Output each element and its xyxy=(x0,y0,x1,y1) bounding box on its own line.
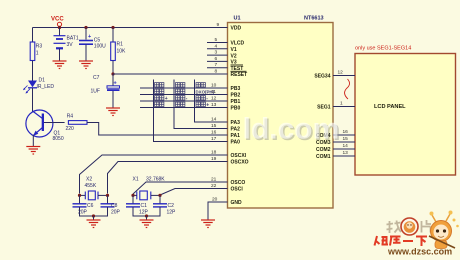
wire OSCXI pin 18 to X2 xyxy=(80,155,228,194)
wire COM3 to panel pin 15 xyxy=(333,141,355,143)
svg-text:C1: C1 xyxy=(141,203,148,209)
svg-text:19: 19 xyxy=(211,156,217,162)
pin stub VLCD 5 xyxy=(207,42,228,44)
wire rail to R3 xyxy=(32,28,34,43)
node dot X1 ground xyxy=(145,214,148,217)
node dot R1-C7-RESET xyxy=(111,72,114,75)
svg-text:12: 12 xyxy=(338,70,344,76)
wire VCC rail xyxy=(33,27,228,29)
node dot rail-C5 xyxy=(84,26,87,29)
wire D1 to Q1 collector xyxy=(32,88,34,112)
capacitor C8 20P xyxy=(101,203,121,216)
svg-text:OSCO: OSCO xyxy=(231,180,246,186)
svg-text:15: 15 xyxy=(211,123,217,129)
svg-text:RESET: RESET xyxy=(231,72,248,78)
svg-text:OSCXI: OSCXI xyxy=(231,153,247,159)
svg-text:U1: U1 xyxy=(234,16,241,22)
svg-text:C2: C2 xyxy=(168,203,175,209)
wire X2 right node to C8 xyxy=(107,195,109,203)
ground under GND pin xyxy=(201,220,215,228)
key label row3 col3 xyxy=(196,96,200,100)
svg-text:X2: X2 xyxy=(86,177,92,183)
svg-text:3V: 3V xyxy=(67,42,74,48)
key label row4 col1 xyxy=(155,102,159,106)
svg-text:8: 8 xyxy=(215,69,218,75)
pin stub TEST 7 xyxy=(207,67,228,69)
svg-text:32.768K: 32.768K xyxy=(146,177,165,183)
wire X2 caps to ground rail xyxy=(80,207,108,216)
svg-text:PB3: PB3 xyxy=(231,86,241,92)
wire COM4 to panel pin 16 xyxy=(333,134,355,136)
node dot X1 right xyxy=(158,194,161,197)
wire X1 caps to ground rail xyxy=(133,207,160,216)
ground under BAT1 xyxy=(53,61,67,69)
key label row1 col3 xyxy=(196,83,200,87)
wire node to RESET pin 8 xyxy=(113,73,228,75)
svg-text:1: 1 xyxy=(340,101,343,107)
svg-text:5: 5 xyxy=(215,37,218,43)
svg-text:GND: GND xyxy=(231,200,243,206)
svg-text:22: 22 xyxy=(211,183,217,189)
IC pin name TEST with overline xyxy=(231,65,244,72)
key matrix row wire PB3 pin 10 xyxy=(140,87,228,89)
wire Q1 emitter to ground xyxy=(32,135,34,147)
svg-text:3: 3 xyxy=(215,50,218,56)
svg-text:20P: 20P xyxy=(111,210,121,216)
svg-text:100U: 100U xyxy=(94,44,106,50)
wire OSCXO pin 19 to X2 xyxy=(108,162,228,194)
svg-text:C6: C6 xyxy=(87,203,94,209)
ground under C5 xyxy=(79,61,93,69)
battery BAT1 3V xyxy=(54,35,79,48)
svg-text:PA1: PA1 xyxy=(231,133,241,139)
wire COM2 to panel pin 14 xyxy=(333,148,355,150)
resistor R3 xyxy=(30,42,42,61)
svg-text:20: 20 xyxy=(212,197,218,203)
svg-text:D1: D1 xyxy=(39,78,46,84)
svg-text:PA3: PA3 xyxy=(231,120,241,126)
wire Q1 base to R4 xyxy=(44,122,65,124)
logo mascot xyxy=(429,211,459,249)
logo red text xyxy=(375,236,428,246)
svg-text:14: 14 xyxy=(343,143,349,149)
node dot X2 left xyxy=(78,194,81,197)
svg-text:1UF: 1UF xyxy=(91,89,100,95)
svg-text:220: 220 xyxy=(66,126,75,132)
wire R3 to D1 xyxy=(32,61,34,81)
capacitor C5 100U xyxy=(79,34,106,50)
svg-text:18: 18 xyxy=(211,150,217,156)
svg-text:IR_LED: IR_LED xyxy=(37,84,55,90)
wire GND pin 20 xyxy=(208,202,228,220)
svg-text:PB1: PB1 xyxy=(231,99,241,105)
svg-text:LCD PANEL: LCD PANEL xyxy=(374,104,406,110)
svg-text:1: 1 xyxy=(36,51,39,57)
svg-text:16: 16 xyxy=(343,129,349,135)
svg-text:PB2: PB2 xyxy=(231,93,241,99)
svg-text:12P: 12P xyxy=(167,210,177,216)
key matrix row wire PB2 pin 11 xyxy=(140,94,228,96)
wire rail to C5 xyxy=(85,28,87,40)
wire C5 to ground xyxy=(85,45,87,62)
svg-text:BAT1: BAT1 xyxy=(67,35,79,41)
wire OSCI pin 22 to X1 xyxy=(160,189,228,196)
wire rail to BAT1 xyxy=(59,28,61,36)
svg-text:DXO(PH): DXO(PH) xyxy=(196,90,215,95)
svg-text:455K: 455K xyxy=(85,183,97,189)
wire BAT1 to ground xyxy=(59,49,61,62)
key label row4 col3 xyxy=(196,102,200,106)
key matrix column 3 wire to PA3 pin 14 xyxy=(195,80,228,123)
svg-text:13: 13 xyxy=(343,150,349,156)
key label row1 col2 xyxy=(176,83,180,87)
wire X2 left node to C6 xyxy=(79,195,81,203)
IC pin name RESET with overline xyxy=(231,71,248,78)
svg-text:PA0: PA0 xyxy=(231,140,241,146)
svg-text:COM2: COM2 xyxy=(316,147,331,153)
svg-text:X1: X1 xyxy=(133,177,139,183)
svg-text:9: 9 xyxy=(217,22,220,28)
svg-text:14: 14 xyxy=(211,117,217,123)
svg-text:ld.com: ld.com xyxy=(243,113,340,146)
svg-text:R3: R3 xyxy=(36,44,43,50)
resistor R1 10K xyxy=(111,42,126,61)
VCC xyxy=(51,17,64,27)
capacitor C6 20P xyxy=(73,203,94,216)
svg-text:V1: V1 xyxy=(231,47,237,53)
svg-text:10: 10 xyxy=(211,83,217,89)
svg-text:R4: R4 xyxy=(67,114,74,120)
logo badge xyxy=(401,218,418,235)
svg-text:10K: 10K xyxy=(117,49,127,55)
key label row4 col2 xyxy=(176,102,180,106)
key matrix row wire PB0 pin 13 xyxy=(140,107,228,109)
wire C7 to ground xyxy=(112,91,114,108)
svg-text:4: 4 xyxy=(215,43,218,49)
svg-text:PA2: PA2 xyxy=(231,127,241,133)
ground under X2 xyxy=(87,220,101,228)
wire X1 right node to C2 xyxy=(159,195,161,203)
LED D1 IR_LED xyxy=(23,78,54,94)
ground under C7 xyxy=(106,108,120,116)
ground under X1 xyxy=(140,220,154,228)
svg-text:OSCXO: OSCXO xyxy=(231,160,249,166)
svg-text:NT6613: NT6613 xyxy=(304,16,324,22)
wire node to C7 xyxy=(112,74,114,86)
watermark xyxy=(243,113,341,148)
svg-text:OSCI: OSCI xyxy=(231,187,244,193)
transistor Q1 8050 xyxy=(26,110,64,142)
node dot X2 ground xyxy=(92,214,95,217)
key matrix row wire PB1 pin 12 xyxy=(140,100,228,102)
svg-text:SEG1: SEG1 xyxy=(317,105,331,111)
svg-text:VCC: VCC xyxy=(51,17,64,23)
wire to X1 ground xyxy=(146,216,148,220)
wire X1 left node to C1 xyxy=(132,195,134,203)
pin stub V3 6 xyxy=(207,60,228,62)
svg-text:13: 13 xyxy=(211,102,217,108)
svg-text:C8: C8 xyxy=(111,203,118,209)
capacitor C1 12P xyxy=(126,203,149,216)
svg-text:VLCD: VLCD xyxy=(231,41,245,47)
svg-text:17: 17 xyxy=(211,136,217,142)
resistor R4 220 xyxy=(66,114,91,132)
svg-text:12: 12 xyxy=(211,96,217,102)
pin stub V2 3 xyxy=(207,54,228,56)
svg-text:V2: V2 xyxy=(231,53,237,59)
crystal X2 455K xyxy=(80,177,108,200)
capacitor C7 1UF xyxy=(91,75,120,95)
key matrix column 1 wire to PA0 pin 17 xyxy=(154,80,228,142)
wire OSCO pin 21 to X1 xyxy=(133,182,228,194)
key label row2 col2 xyxy=(176,89,180,93)
wire to X2 ground xyxy=(93,216,95,220)
svg-text:VDD: VDD xyxy=(231,26,242,32)
wire SEG34 to panel pin 12 xyxy=(333,75,355,77)
svg-text:+: + xyxy=(165,96,168,102)
svg-text:6: 6 xyxy=(215,56,218,62)
svg-text:7: 7 xyxy=(215,62,218,68)
wire R1 to node xyxy=(112,61,114,75)
wire SEG1 to panel pin 1 xyxy=(333,106,355,108)
wire R4 to PA1 pin 16 xyxy=(91,123,228,136)
svg-text:only use SEG1-SEG14: only use SEG1-SEG14 xyxy=(355,46,411,52)
svg-text:+: + xyxy=(88,34,91,40)
key label row3 col1 xyxy=(155,96,159,100)
node dot X2 right xyxy=(106,194,109,197)
crystal X1 32.768K xyxy=(133,177,166,200)
svg-text:R1: R1 xyxy=(117,42,124,48)
svg-text:COM1: COM1 xyxy=(316,154,331,160)
node dot rail-BAT1 xyxy=(58,26,61,29)
key label row1 col1 xyxy=(155,83,159,87)
svg-text:C7: C7 xyxy=(93,75,100,81)
svg-text:21: 21 xyxy=(211,177,217,183)
ground under Q1 xyxy=(26,147,40,155)
bus continuation squiggle xyxy=(345,79,350,99)
node dot X1 left xyxy=(131,194,134,197)
svg-text:8050: 8050 xyxy=(53,136,64,142)
LCD panel xyxy=(355,54,456,176)
IC U1 body xyxy=(228,16,334,209)
svg-text:PB0: PB0 xyxy=(231,106,241,112)
wire COM1 to panel pin 13 xyxy=(333,155,355,157)
capacitor C2 12P xyxy=(153,203,176,216)
pin stub V1 4 xyxy=(207,48,228,50)
svg-text:SEG34: SEG34 xyxy=(314,74,330,80)
key matrix column 2 wire to PA2 pin 15 xyxy=(174,80,228,129)
node dot rail-R1 xyxy=(111,26,114,29)
key label row3 col2 xyxy=(176,96,180,100)
key label row2 col1 xyxy=(155,89,159,93)
svg-text:15: 15 xyxy=(343,136,349,142)
logo gray text xyxy=(387,221,402,234)
svg-text:+: + xyxy=(206,103,209,109)
wire rail to R1 xyxy=(112,28,114,43)
